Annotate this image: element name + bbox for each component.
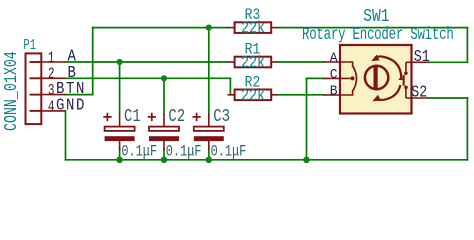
svg-text:3: 3 <box>48 83 55 100</box>
svg-text:22k: 22k <box>241 85 265 105</box>
svg-text:4: 4 <box>48 99 55 116</box>
svg-text:0.1μF: 0.1μF <box>121 143 157 161</box>
svg-text:S2: S2 <box>411 82 427 102</box>
svg-text:1: 1 <box>48 50 55 67</box>
svg-text:GND: GND <box>56 95 86 115</box>
svg-text:C3: C3 <box>213 105 230 126</box>
svg-text:B: B <box>330 84 338 100</box>
svg-text:22k: 22k <box>241 18 265 38</box>
svg-text:CONN_01X04: CONN_01X04 <box>0 51 22 131</box>
svg-text:A: A <box>330 51 339 67</box>
svg-text:S1: S1 <box>414 47 430 67</box>
svg-text:C1: C1 <box>124 105 141 126</box>
svg-text:C2: C2 <box>168 105 185 126</box>
svg-text:C: C <box>330 68 338 84</box>
svg-text:P1: P1 <box>23 36 36 53</box>
svg-text:0.1μF: 0.1μF <box>211 143 247 161</box>
svg-text:22k: 22k <box>241 53 265 73</box>
svg-text:0.1μF: 0.1μF <box>166 143 202 161</box>
svg-text:Rotary Encoder Switch: Rotary Encoder Switch <box>302 24 454 45</box>
svg-text:2: 2 <box>48 67 55 84</box>
